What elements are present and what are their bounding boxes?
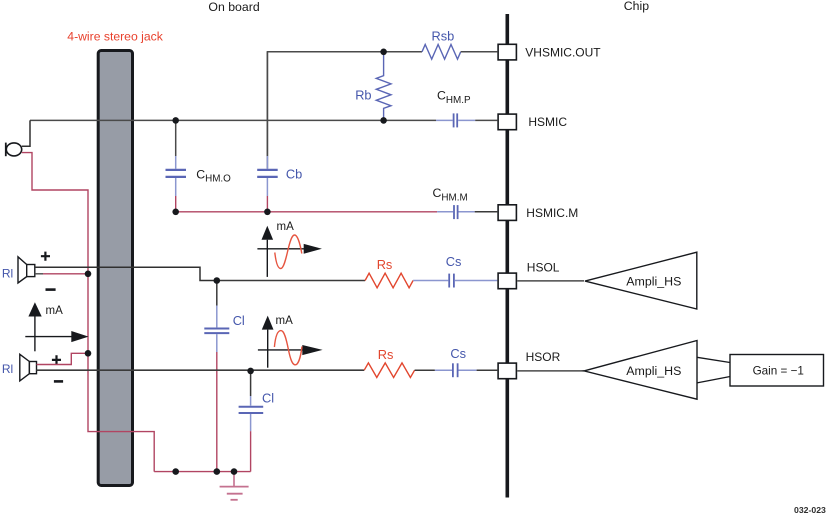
ground symbol [220,472,249,500]
node rail/Cl1 [214,468,221,475]
svg-text:Cl: Cl [233,313,245,328]
microphone MIC [6,143,22,157]
wire: speaker1 - red [35,273,43,275]
capacitor Cl (HSOL) [204,281,229,472]
wire: HSOR pin to amp [517,370,584,372]
wire: C_HM.M to HSMIC.M pin [475,211,498,213]
connector amp to gain box [697,357,731,362]
resistor Rsb [422,45,461,60]
minus sign speaker 2 [54,380,63,383]
4-wire stereo jack body [98,51,132,486]
sine wave [275,235,302,269]
resistor Rs (HSOR) [364,363,414,378]
node speaker2 plus [85,350,92,357]
node HSOR/Cl [247,368,254,375]
gain box [730,355,824,387]
node HSMIC/C_HM.O [172,117,179,124]
wire: mic to HSMIC line [22,120,30,146]
wire: HSOL net to Rs [217,280,365,282]
svg-text:Cb: Cb [286,167,302,182]
pin HSMIC [498,114,516,130]
resistor Rs (HSOL) [365,273,413,288]
svg-text:mA: mA [276,315,294,327]
capacitor C_HM.P [436,113,475,127]
sine wave [274,331,302,365]
wire: HSOR net horizontal [37,369,365,371]
svg-text:4-wire stereo jack: 4-wire stereo jack [67,29,163,43]
wire: VHSMIC.OUT net (corner to Rsb) [267,52,422,169]
wire: C_HM.P to HSMIC pin [475,119,497,121]
op-amp Ampli_HS (HSOR) [584,341,697,400]
resistor Rb [376,52,391,121]
wire: speaker1 + to HSOL (with jog) [35,267,217,280]
wire: HSMIC.M net [176,211,437,213]
svg-text:Rs: Rs [378,347,394,362]
svg-text:Rs: Rs [377,257,393,272]
svg-text:Cl: Cl [262,391,274,406]
pin HSOL [498,273,516,289]
chip boundary line [505,14,509,498]
wire: ground rail [154,471,250,473]
svg-text:HSMIC: HSMIC [528,115,567,129]
svg-text:VHSMIC.OUT: VHSMIC.OUT [525,46,601,60]
minus sign speaker 1 [46,288,56,291]
svg-text:Cs: Cs [450,346,466,361]
node HSMIC/Rb [380,117,387,124]
capacitor Cs (HSOL) [413,274,497,288]
wire: HSMIC net horizontal [30,119,436,121]
svg-text:Ampli_HS: Ampli_HS [626,364,681,378]
capacitor Cs (HSOR) [415,363,498,377]
svg-text:Rl: Rl [2,362,13,376]
node HSOL/Cl [214,277,221,284]
node speaker1 minus [85,271,92,278]
wire: HSOL pin to amp [517,280,584,282]
svg-text:On board: On board [208,0,259,14]
capacitor C_HM.M [437,205,475,219]
op-amp Ampli_HS (HSOL) [585,252,697,309]
plus sign speaker 2 [52,355,61,364]
wire: Rsb to VHSMIC.OUT pin [461,51,498,53]
svg-text:Cs: Cs [446,254,462,269]
node rail/C_HM.O [172,468,179,475]
current source mA (HSOL loop) [257,221,322,277]
svg-text:Rb: Rb [355,87,371,102]
svg-text:HSOL: HSOL [527,261,560,275]
plus sign speaker 1 [41,252,50,261]
pin VHSMIC.OUT [498,44,516,60]
wire: speaker2 + red to mic rail [37,353,89,364]
node HSMIC.M/Cb [264,209,271,216]
pin HSMIC.M [498,205,516,221]
node VHSMIC/Rsb/Rb [380,49,387,56]
capacitor Cb [257,52,278,212]
svg-text:Chip: Chip [624,0,649,13]
node HSMIC.M/C_HM.O [172,209,179,216]
svg-text:mA: mA [46,305,64,317]
pin HSOR [498,363,516,379]
svg-text:Gain = −1: Gain = −1 [753,364,804,377]
capacitor C_HM.O [166,120,187,211]
svg-text:Rl: Rl [2,266,13,280]
svg-text:032-023: 032-023 [794,505,826,514]
capacitor Cl (HSOR) [239,371,264,472]
current source mA (HSOR loop) [258,315,323,368]
svg-text:mA: mA [277,221,295,233]
speaker Rl (right channel) [20,354,37,381]
svg-text:Ampli_HS: Ampli_HS [626,274,681,288]
wire: mic red lead down-left rail [22,153,154,472]
current source mA (left, speakers) [25,302,88,351]
svg-text:HSMIC.M: HSMIC.M [526,206,578,220]
node rail/ground [231,468,238,475]
svg-text:HSOR: HSOR [526,350,561,364]
svg-text:Rsb: Rsb [432,29,455,44]
speaker Rl (left channel) [18,257,35,283]
